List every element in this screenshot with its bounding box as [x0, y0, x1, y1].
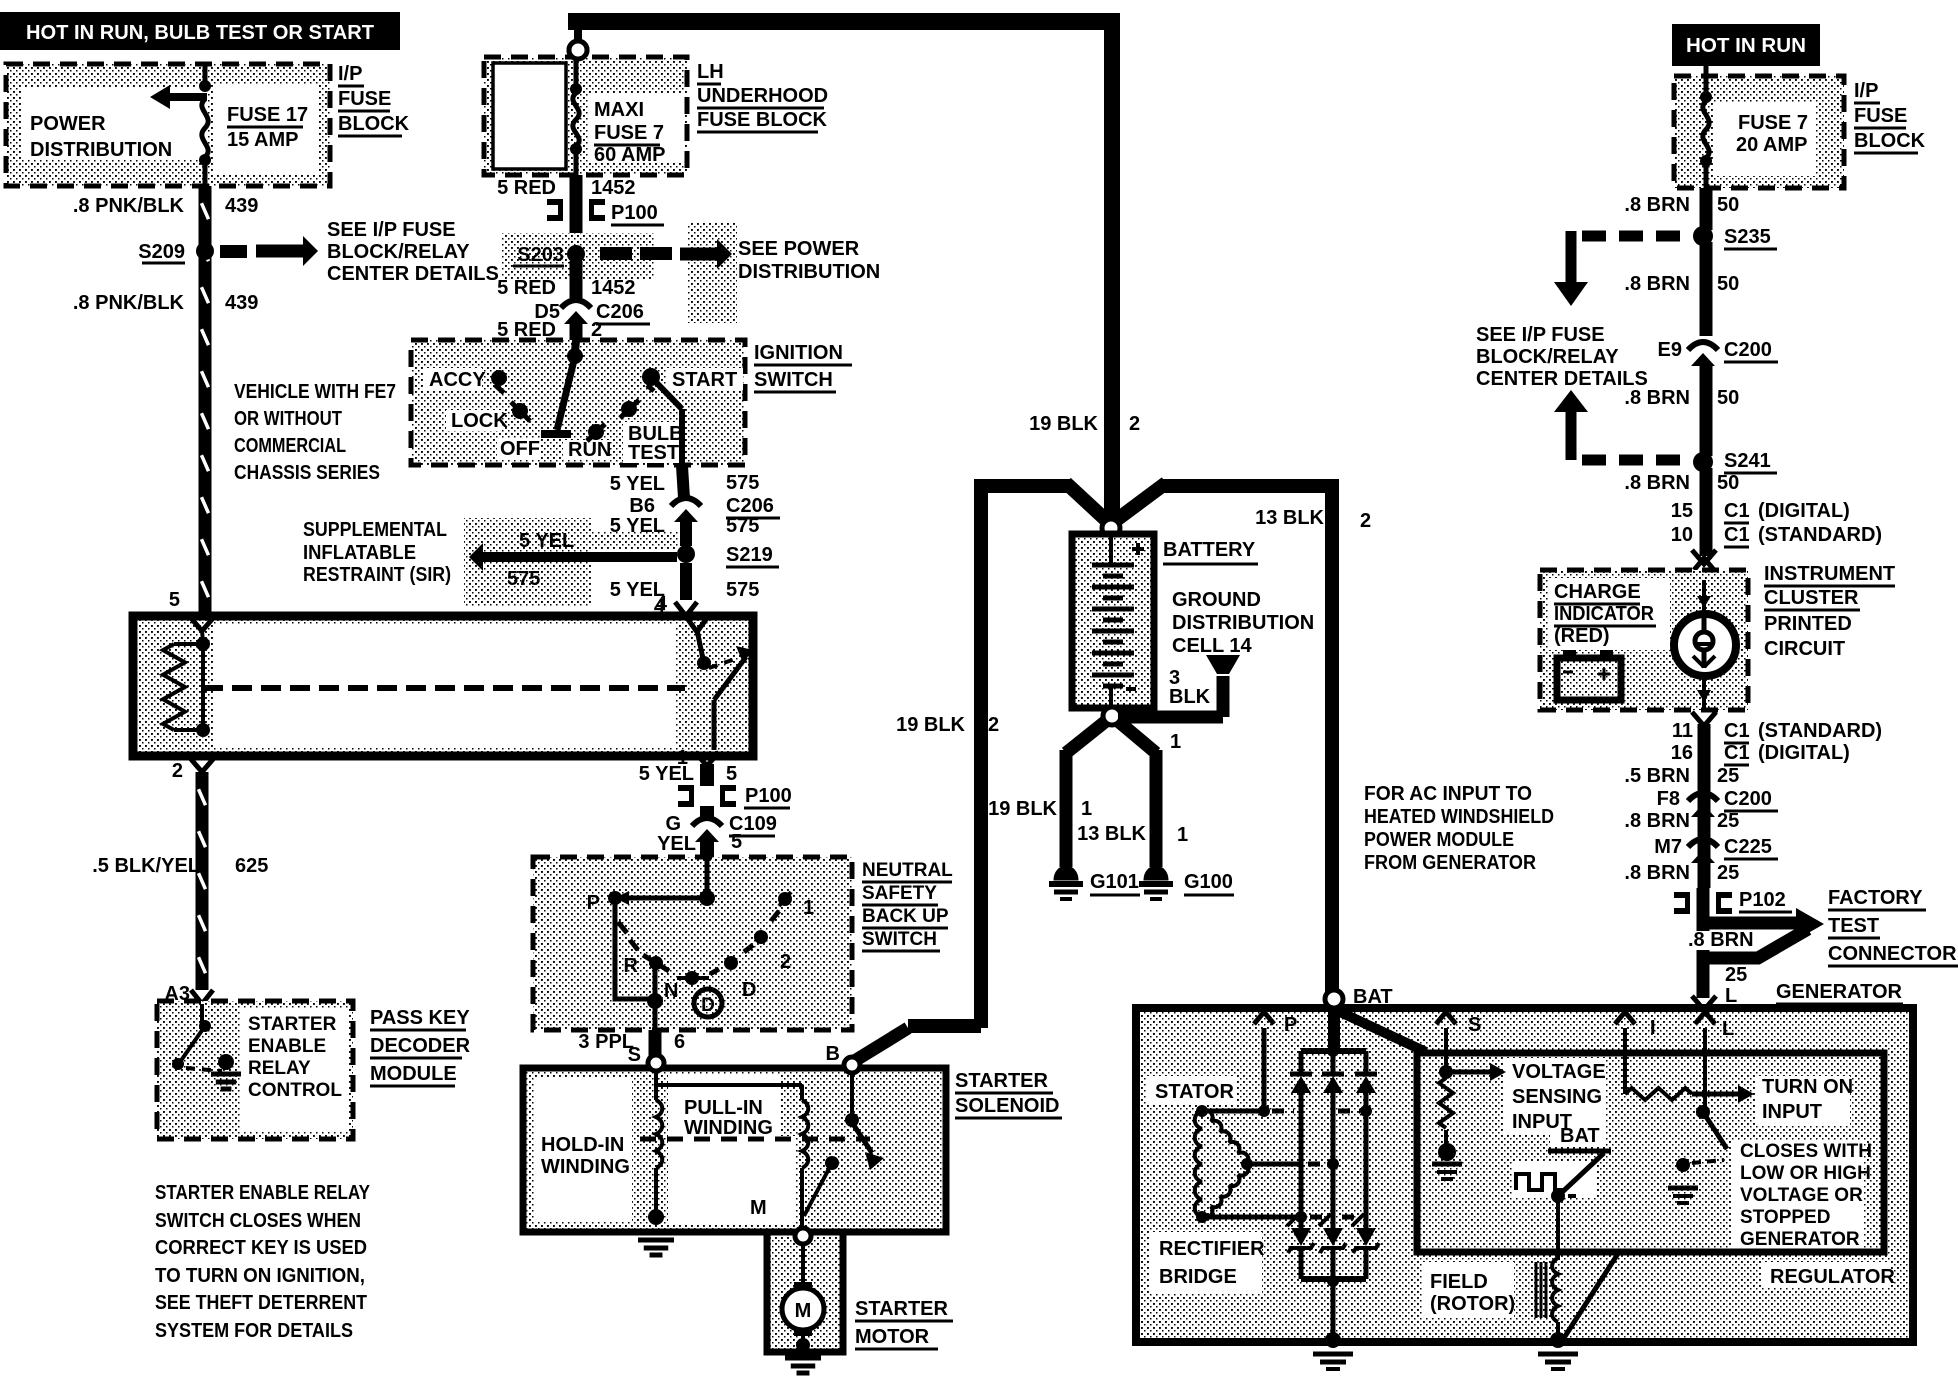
- svg-text:C206: C206: [596, 301, 644, 323]
- svg-text:HOT IN RUN: HOT IN RUN: [1686, 35, 1806, 57]
- svg-text:SYSTEM FOR DETAILS: SYSTEM FOR DETAILS: [155, 1320, 353, 1342]
- svg-text:STARTER: STARTER: [248, 1014, 337, 1035]
- svg-text:P: P: [587, 892, 600, 914]
- svg-text:INSTRUMENT: INSTRUMENT: [1764, 563, 1895, 585]
- svg-text:1: 1: [1170, 731, 1181, 753]
- svg-text:C200: C200: [1724, 788, 1772, 810]
- svg-text:(DIGITAL): (DIGITAL): [1758, 500, 1850, 522]
- svg-text:.5 BLK/YEL: .5 BLK/YEL: [92, 855, 200, 877]
- svg-text:HEATED WINDSHIELD: HEATED WINDSHIELD: [1364, 806, 1554, 828]
- svg-text:15: 15: [1671, 500, 1693, 522]
- svg-text:SEE THEFT DETERRENT: SEE THEFT DETERRENT: [155, 1292, 367, 1314]
- svg-text:15 AMP: 15 AMP: [227, 129, 299, 151]
- svg-text:BACK UP: BACK UP: [862, 906, 949, 927]
- svg-text:YEL: YEL: [657, 833, 696, 855]
- svg-text:DECODER: DECODER: [370, 1035, 471, 1057]
- svg-text:C1: C1: [1724, 500, 1750, 522]
- svg-text:CORRECT KEY IS USED: CORRECT KEY IS USED: [155, 1237, 367, 1259]
- svg-text:G101: G101: [1090, 871, 1139, 893]
- svg-text:6: 6: [674, 1031, 685, 1053]
- svg-text:FUSE 7: FUSE 7: [594, 122, 664, 144]
- svg-text:SWITCH: SWITCH: [754, 369, 833, 391]
- svg-text:R: R: [624, 955, 639, 977]
- svg-text:2: 2: [1360, 510, 1371, 532]
- svg-text:ACCY: ACCY: [429, 369, 486, 391]
- svg-text:CHARGE: CHARGE: [1554, 581, 1641, 603]
- svg-text:C1: C1: [1724, 742, 1750, 764]
- svg-text:HOT IN RUN, BULB TEST OR START: HOT IN RUN, BULB TEST OR START: [26, 22, 374, 44]
- svg-text:BAT: BAT: [1560, 1125, 1600, 1147]
- svg-text:B: B: [826, 1043, 840, 1065]
- svg-text:POWER MODULE: POWER MODULE: [1364, 829, 1514, 851]
- svg-text:5 RED: 5 RED: [497, 277, 556, 299]
- svg-text:439: 439: [225, 292, 258, 314]
- svg-text:5 YEL: 5 YEL: [639, 763, 694, 785]
- svg-text:SWITCH CLOSES WHEN: SWITCH CLOSES WHEN: [155, 1210, 361, 1232]
- svg-text:G: G: [665, 813, 681, 835]
- svg-text:FUSE BLOCK: FUSE BLOCK: [697, 109, 828, 131]
- svg-text:REGULATOR: REGULATOR: [1770, 1266, 1895, 1288]
- svg-text:1: 1: [803, 897, 814, 919]
- svg-text:LOCK: LOCK: [451, 410, 508, 432]
- svg-text:DISTRIBUTION: DISTRIBUTION: [1172, 612, 1314, 634]
- svg-text:.8 BRN: .8 BRN: [1624, 273, 1690, 295]
- svg-text:SUPPLEMENTAL: SUPPLEMENTAL: [303, 519, 447, 541]
- svg-text:BAT: BAT: [1353, 986, 1393, 1008]
- svg-text:D: D: [742, 979, 756, 1001]
- svg-text:2: 2: [1129, 413, 1140, 435]
- svg-text:4: 4: [654, 596, 666, 618]
- svg-text:BRIDGE: BRIDGE: [1159, 1266, 1237, 1288]
- svg-text:OR WITHOUT: OR WITHOUT: [234, 408, 342, 430]
- svg-text:19 BLK: 19 BLK: [1029, 413, 1098, 435]
- svg-text:ENABLE: ENABLE: [248, 1036, 326, 1057]
- svg-text:CHASSIS SERIES: CHASSIS SERIES: [234, 462, 380, 484]
- svg-text:2: 2: [988, 714, 999, 736]
- svg-text:5: 5: [726, 763, 737, 785]
- svg-text:RESTRAINT (SIR): RESTRAINT (SIR): [303, 564, 451, 586]
- svg-text:CIRCUIT: CIRCUIT: [1764, 638, 1845, 660]
- svg-text:STATOR: STATOR: [1155, 1081, 1234, 1103]
- svg-text:N: N: [664, 980, 678, 1002]
- svg-text:CELL 14: CELL 14: [1172, 635, 1253, 657]
- svg-text:STOPPED: STOPPED: [1740, 1207, 1830, 1228]
- svg-text:P: P: [1284, 1014, 1297, 1036]
- svg-text:CENTER DETAILS: CENTER DETAILS: [1476, 368, 1648, 390]
- svg-text:M: M: [795, 1300, 812, 1322]
- svg-text:.8 BRN: .8 BRN: [1624, 387, 1690, 409]
- svg-text:OFF: OFF: [500, 438, 540, 460]
- svg-text:16: 16: [1671, 742, 1693, 764]
- svg-text:625: 625: [235, 855, 268, 877]
- svg-text:GENERATOR: GENERATOR: [1776, 981, 1902, 1003]
- svg-text:LOW OR HIGH: LOW OR HIGH: [1740, 1163, 1871, 1184]
- svg-text:NEUTRAL: NEUTRAL: [862, 860, 953, 881]
- svg-text:INPUT: INPUT: [1762, 1101, 1822, 1123]
- svg-text:575: 575: [726, 579, 759, 601]
- svg-text:(RED): (RED): [1554, 625, 1610, 647]
- svg-text:HOLD-IN: HOLD-IN: [541, 1134, 624, 1156]
- svg-text:MODULE: MODULE: [370, 1063, 457, 1085]
- svg-text:(STANDARD): (STANDARD): [1758, 524, 1882, 546]
- svg-text:L: L: [1725, 985, 1737, 1007]
- svg-text:FUSE 7: FUSE 7: [1738, 112, 1808, 134]
- svg-text:C1: C1: [1724, 720, 1750, 742]
- svg-text:1: 1: [1081, 798, 1092, 820]
- svg-text:.8 BRN: .8 BRN: [1624, 862, 1690, 884]
- svg-text:F8: F8: [1657, 788, 1680, 810]
- svg-text:P100: P100: [611, 202, 658, 224]
- svg-text:C206: C206: [726, 495, 774, 517]
- svg-text:RECTIFIER: RECTIFIER: [1159, 1238, 1265, 1260]
- svg-text:RUN: RUN: [568, 439, 611, 461]
- svg-text:50: 50: [1717, 472, 1739, 494]
- svg-text:S235: S235: [1724, 226, 1771, 248]
- svg-text:S203: S203: [517, 244, 564, 266]
- svg-text:60 AMP: 60 AMP: [594, 144, 666, 166]
- svg-text:CONTROL: CONTROL: [248, 1080, 342, 1101]
- svg-text:1: 1: [1177, 824, 1188, 846]
- svg-text:.8 BRN: .8 BRN: [1624, 472, 1690, 494]
- svg-text:STARTER: STARTER: [955, 1070, 1049, 1092]
- svg-text:DISTRIBUTION: DISTRIBUTION: [738, 261, 880, 283]
- svg-text:TO TURN ON IGNITION,: TO TURN ON IGNITION,: [155, 1265, 365, 1287]
- svg-text:BLOCK: BLOCK: [338, 113, 410, 135]
- svg-text:PASS KEY: PASS KEY: [370, 1007, 470, 1029]
- svg-text:CLOSES WITH: CLOSES WITH: [1740, 1141, 1872, 1162]
- svg-text:STARTER: STARTER: [855, 1298, 949, 1320]
- svg-text:C200: C200: [1724, 339, 1772, 361]
- svg-text:2: 2: [780, 951, 791, 973]
- svg-text:(STANDARD): (STANDARD): [1758, 720, 1882, 742]
- svg-text:VOLTAGE: VOLTAGE: [1512, 1061, 1606, 1083]
- svg-text:2: 2: [172, 760, 183, 782]
- svg-text:.8 BRN: .8 BRN: [1624, 810, 1690, 832]
- svg-text:FOR AC INPUT TO: FOR AC INPUT TO: [1364, 783, 1532, 805]
- svg-text:I/P: I/P: [1854, 80, 1878, 102]
- svg-text:FUSE: FUSE: [1854, 105, 1907, 127]
- svg-text:I/P: I/P: [338, 63, 362, 85]
- svg-text:UNDERHOOD: UNDERHOOD: [697, 85, 828, 107]
- svg-text:D: D: [701, 995, 715, 1016]
- svg-text:FIELD: FIELD: [1430, 1271, 1488, 1293]
- svg-text:TEST: TEST: [628, 442, 679, 464]
- svg-text:.8 BRN: .8 BRN: [1624, 194, 1690, 216]
- svg-text:E9: E9: [1658, 339, 1682, 361]
- svg-text:11: 11: [1672, 720, 1693, 742]
- svg-text:C1: C1: [1724, 524, 1750, 546]
- svg-text:WINDING: WINDING: [541, 1156, 630, 1178]
- svg-text:5: 5: [731, 831, 742, 853]
- svg-text:FACTORY: FACTORY: [1828, 887, 1923, 909]
- svg-text:G100: G100: [1184, 871, 1233, 893]
- svg-text:M7: M7: [1654, 836, 1682, 858]
- svg-text:5 YEL: 5 YEL: [610, 473, 665, 495]
- svg-text:50: 50: [1717, 194, 1739, 216]
- svg-text:P100: P100: [745, 785, 792, 807]
- svg-text:S241: S241: [1724, 450, 1771, 472]
- svg-text:SENSING: SENSING: [1512, 1086, 1602, 1108]
- svg-text:SWITCH: SWITCH: [862, 929, 937, 950]
- svg-text:20 AMP: 20 AMP: [1736, 134, 1808, 156]
- svg-text:WINDING: WINDING: [684, 1117, 773, 1139]
- svg-text:VEHICLE WITH FE7: VEHICLE WITH FE7: [234, 381, 396, 403]
- svg-text:SAFETY: SAFETY: [862, 883, 937, 904]
- svg-text:MAXI: MAXI: [594, 99, 644, 121]
- svg-text:TURN ON: TURN ON: [1762, 1076, 1853, 1098]
- svg-text:TEST: TEST: [1828, 915, 1879, 937]
- svg-text:RELAY: RELAY: [248, 1058, 311, 1079]
- svg-text:IGNITION: IGNITION: [754, 342, 843, 364]
- svg-text:DISTRIBUTION: DISTRIBUTION: [30, 139, 172, 161]
- svg-text:CLUSTER: CLUSTER: [1764, 587, 1859, 609]
- svg-text:SEE I/P FUSE: SEE I/P FUSE: [327, 219, 456, 241]
- svg-text:5: 5: [169, 589, 180, 611]
- svg-text:M: M: [750, 1197, 767, 1219]
- svg-text:INFLATABLE: INFLATABLE: [303, 542, 416, 564]
- svg-text:MOTOR: MOTOR: [855, 1326, 930, 1348]
- svg-text:25: 25: [1717, 862, 1739, 884]
- svg-text:25: 25: [1725, 964, 1747, 986]
- svg-text:(ROTOR): (ROTOR): [1430, 1293, 1515, 1315]
- svg-text:LH: LH: [697, 61, 724, 83]
- svg-text:S: S: [1468, 1014, 1481, 1036]
- svg-text:19 BLK: 19 BLK: [896, 714, 965, 736]
- svg-text:I: I: [1650, 1017, 1656, 1039]
- svg-text:GENERATOR: GENERATOR: [1740, 1229, 1860, 1250]
- svg-text:B6: B6: [629, 495, 655, 517]
- svg-text:S: S: [628, 1044, 641, 1066]
- svg-text:10: 10: [1671, 524, 1693, 546]
- svg-text:BLOCK/RELAY: BLOCK/RELAY: [1476, 346, 1619, 368]
- svg-text:13 BLK: 13 BLK: [1077, 823, 1146, 845]
- svg-text:25: 25: [1717, 810, 1739, 832]
- svg-text:FUSE 17: FUSE 17: [227, 104, 308, 126]
- svg-text:COMMERCIAL: COMMERCIAL: [234, 435, 346, 457]
- svg-text:FROM GENERATOR: FROM GENERATOR: [1364, 852, 1536, 874]
- svg-text:5 YEL: 5 YEL: [519, 530, 574, 552]
- svg-text:3 PPL: 3 PPL: [578, 1031, 634, 1053]
- svg-text:19 BLK: 19 BLK: [988, 798, 1057, 820]
- svg-text:BLOCK/RELAY: BLOCK/RELAY: [327, 241, 470, 263]
- svg-text:.8 PNK/BLK: .8 PNK/BLK: [73, 292, 185, 314]
- svg-text:P102: P102: [1739, 889, 1786, 911]
- svg-text:575: 575: [726, 515, 759, 537]
- svg-text:INDICATOR: INDICATOR: [1554, 603, 1655, 625]
- svg-text:5 RED: 5 RED: [497, 177, 556, 199]
- svg-text:STARTER ENABLE RELAY: STARTER ENABLE RELAY: [155, 1182, 371, 1204]
- svg-text:VOLTAGE OR: VOLTAGE OR: [1740, 1185, 1863, 1206]
- svg-text:BLK: BLK: [1169, 686, 1211, 708]
- svg-text:CENTER DETAILS: CENTER DETAILS: [327, 263, 499, 285]
- svg-text:.5 BRN: .5 BRN: [1624, 765, 1690, 787]
- svg-text:.8 BRN: .8 BRN: [1688, 929, 1754, 951]
- svg-text:50: 50: [1717, 387, 1739, 409]
- svg-text:POWER: POWER: [30, 113, 106, 135]
- svg-text:.8 PNK/BLK: .8 PNK/BLK: [73, 195, 185, 217]
- svg-text:50: 50: [1717, 273, 1739, 295]
- svg-text:FUSE: FUSE: [338, 88, 391, 110]
- svg-text:START: START: [672, 369, 737, 391]
- svg-text:S219: S219: [726, 544, 773, 566]
- svg-text:BLOCK: BLOCK: [1854, 130, 1926, 152]
- svg-text:SEE POWER: SEE POWER: [738, 238, 860, 260]
- svg-text:13 BLK: 13 BLK: [1255, 507, 1324, 529]
- svg-text:575: 575: [507, 568, 540, 590]
- svg-text:1452: 1452: [591, 177, 636, 199]
- svg-text:BATTERY: BATTERY: [1163, 539, 1256, 561]
- svg-text:(DIGITAL): (DIGITAL): [1758, 742, 1850, 764]
- svg-text:1452: 1452: [591, 277, 636, 299]
- svg-text:575: 575: [726, 472, 759, 494]
- svg-text:25: 25: [1717, 765, 1739, 787]
- svg-text:S209: S209: [138, 241, 185, 263]
- svg-text:PRINTED: PRINTED: [1764, 613, 1852, 635]
- svg-text:439: 439: [225, 195, 258, 217]
- svg-text:SEE I/P FUSE: SEE I/P FUSE: [1476, 324, 1605, 346]
- svg-text:SOLENOID: SOLENOID: [955, 1095, 1059, 1117]
- svg-text:CONNECTOR: CONNECTOR: [1828, 943, 1957, 965]
- svg-text:PULL-IN: PULL-IN: [684, 1097, 763, 1119]
- svg-text:GROUND: GROUND: [1172, 589, 1261, 611]
- svg-text:C225: C225: [1724, 836, 1772, 858]
- svg-text:L: L: [1722, 1018, 1734, 1040]
